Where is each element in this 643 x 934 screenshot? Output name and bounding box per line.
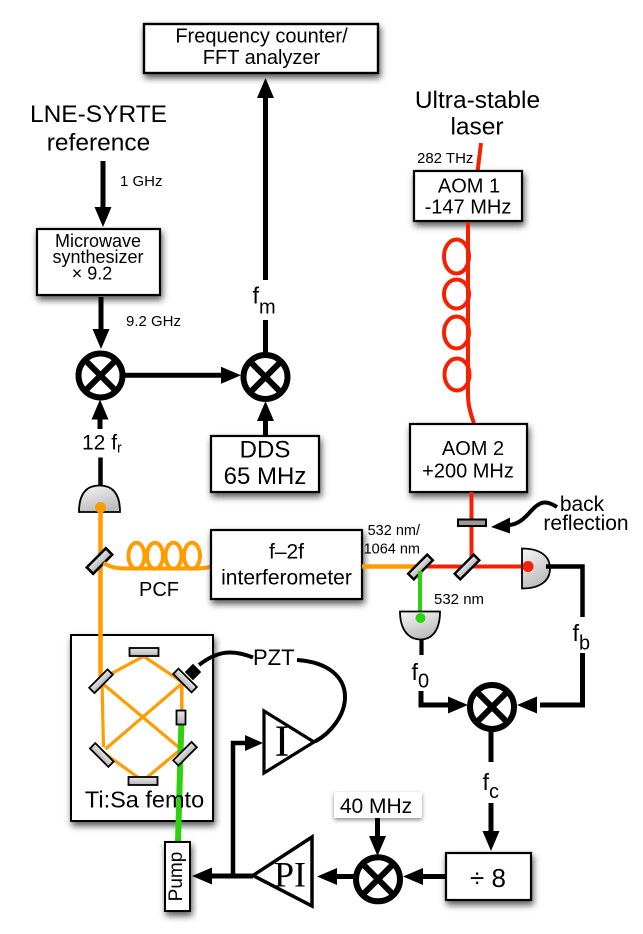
beam cavity Mbottom to M4 bbox=[145, 751, 179, 779]
mirror M3 (cavity bottom-left) bbox=[90, 743, 114, 767]
beam green 532nm down bbox=[418, 571, 422, 617]
beam cavity M1 to M3 bbox=[102, 683, 104, 748]
box U3 DDS 65 MHz bbox=[211, 436, 319, 492]
fiber PCF strand bbox=[104, 563, 213, 569]
photodiode PD1 (microwave detector) bbox=[79, 486, 120, 513]
wire arrow PI output to Pump bbox=[192, 868, 253, 885]
fiber PCF loop 1 bbox=[129, 543, 145, 569]
box U4 f-2f interferometer bbox=[211, 530, 362, 599]
crystal (doubling) bbox=[177, 711, 186, 725]
wire arrow mixer M1 to mixer M2 bbox=[125, 367, 241, 384]
svg-text:282 THz: 282 THz bbox=[417, 150, 473, 167]
beamsplitter BS2 green pickoff bbox=[408, 555, 433, 580]
beam cavity Mtop to M2 bbox=[145, 657, 183, 683]
fiber red loop 2 bbox=[444, 280, 469, 309]
wire branch up to amplifier I bbox=[233, 743, 247, 876]
svg-text:÷ 8: ÷ 8 bbox=[470, 863, 506, 893]
beam cavity M3 to Mbottom bbox=[104, 753, 142, 780]
svg-text:Frequency counter/: Frequency counter/ bbox=[175, 26, 348, 48]
svg-text:65 MHz: 65 MHz bbox=[224, 463, 307, 490]
svg-text:fm: fm bbox=[253, 283, 276, 319]
wire arrow divider to mixer M4 bbox=[403, 868, 446, 885]
svg-text:9.2 GHz: 9.2 GHz bbox=[126, 313, 181, 330]
mirror M4 (cavity bottom-right) bbox=[173, 742, 197, 766]
box laser cavity Ti:Sa femto bbox=[71, 635, 213, 821]
mixer M3 bbox=[470, 685, 514, 729]
wire curved arrow back reflection pointer bbox=[491, 502, 557, 533]
beam green crystal to Pump bbox=[178, 718, 182, 842]
wire arrow 12fr into mixer M1 bbox=[92, 400, 109, 430]
fiber PCF loop 4 bbox=[184, 543, 200, 569]
label 532 nm / 1064 nm bbox=[364, 523, 421, 558]
label Ultra-stable laser bbox=[415, 87, 540, 141]
beam red laser to AOM1 bbox=[478, 143, 482, 172]
svg-text:PI: PI bbox=[274, 855, 306, 895]
svg-text:12 fr: 12 fr bbox=[82, 432, 122, 457]
amplifier PI bbox=[253, 837, 312, 906]
wire PD2 stub bbox=[419, 640, 423, 655]
svg-text:PZT: PZT bbox=[253, 645, 295, 670]
svg-text:-147 MHz: -147 MHz bbox=[425, 197, 512, 219]
svg-text:1064 nm: 1064 nm bbox=[364, 542, 420, 558]
fiber red loop 1 bbox=[444, 240, 469, 274]
wire curve I output to PZT bbox=[297, 660, 345, 742]
fiber PCF loop 3 bbox=[166, 543, 182, 569]
wire arrow LNE-SYRTE to synthesizer bbox=[95, 161, 112, 227]
beam orange f-2f output bbox=[362, 564, 421, 569]
mirror Mbottom (cavity bottom) bbox=[129, 777, 158, 785]
box U1 Frequency counter / FFT analyzer bbox=[144, 24, 378, 73]
box 40 MHz label bbox=[334, 792, 422, 818]
beam red to detector PD3 bbox=[418, 565, 530, 569]
svg-text:40 MHz: 40 MHz bbox=[340, 795, 412, 818]
svg-text:f–2f: f–2f bbox=[269, 541, 304, 564]
mirror M1 (cavity top-left) bbox=[89, 669, 113, 693]
amplifier I bbox=[264, 711, 314, 773]
svg-text:532 nm: 532 nm bbox=[434, 591, 484, 608]
svg-text:reference: reference bbox=[47, 130, 151, 157]
node orange dot on PD1 bbox=[95, 502, 106, 513]
beam cavity M1 to M4 bbox=[100, 681, 180, 748]
beam cavity Mtop to M1 bbox=[99, 656, 144, 680]
box Pump bbox=[165, 842, 190, 911]
svg-text:interferometer: interferometer bbox=[221, 567, 352, 590]
svg-text:I: I bbox=[275, 717, 290, 766]
box U2 Microwave synthesizer x9.2 bbox=[37, 229, 160, 295]
svg-text:LNE-SYRTE: LNE-SYRTE bbox=[30, 101, 167, 128]
svg-text:532 nm/: 532 nm/ bbox=[368, 523, 421, 539]
label back reflection bbox=[543, 493, 628, 535]
mixer M2 bbox=[244, 355, 288, 399]
box U5 AOM 1 -147 MHz bbox=[414, 171, 522, 221]
beamsplitter BS3 combiner bbox=[455, 555, 480, 580]
photodiode PD3 (beat note detector) bbox=[522, 549, 550, 589]
fiber red loop 4 bbox=[445, 359, 470, 391]
svg-text:× 9.2: × 9.2 bbox=[72, 264, 113, 284]
svg-text:Ultra-stable: Ultra-stable bbox=[415, 87, 540, 114]
wire arrow f0 into mixer M3 bbox=[421, 691, 468, 714]
svg-text:f0: f0 bbox=[412, 659, 430, 693]
svg-text:AOM 2: AOM 2 bbox=[442, 438, 504, 460]
svg-text:fb: fb bbox=[573, 620, 591, 655]
box U6 AOM 2 +200 MHz bbox=[410, 424, 527, 492]
beam orange comb to femto M1 bbox=[98, 504, 103, 679]
wire arrow fc into divider bbox=[483, 803, 500, 851]
box U7 divider by 8 bbox=[446, 853, 531, 900]
beamsplitter BS1 near PCF bbox=[87, 548, 112, 573]
wire arrow mixer M4 to PI bbox=[317, 868, 354, 885]
wire arrow DDS to mixer M2 bbox=[257, 401, 274, 436]
wire arrowhead into I bbox=[245, 735, 263, 751]
label LNE-SYRTE reference bbox=[30, 101, 167, 157]
mirror M2 (cavity top-right with PZT) bbox=[173, 669, 197, 693]
wire PD3 to fb bbox=[546, 567, 583, 618]
back reflection plate bbox=[458, 520, 486, 527]
svg-text:Pump: Pump bbox=[166, 852, 187, 902]
svg-text:laser: laser bbox=[450, 114, 503, 141]
mixer M1 bbox=[79, 354, 123, 398]
beam red AOM2 down to beam line bbox=[470, 492, 474, 567]
fiber PCF loop 2 bbox=[147, 543, 163, 569]
photodiode PD2 (f0 detector, inverted dome) bbox=[400, 612, 440, 640]
wire arrow fb into mixer M3 bbox=[517, 653, 583, 714]
svg-text:FFT analyzer: FFT analyzer bbox=[203, 47, 321, 69]
svg-text:Ti:Sa femto: Ti:Sa femto bbox=[85, 787, 204, 813]
svg-text:PCF: PCF bbox=[139, 579, 179, 601]
svg-text:fc: fc bbox=[483, 769, 500, 803]
wire arrow synthesizer to mixer M1 bbox=[93, 297, 110, 349]
svg-text:DDS: DDS bbox=[240, 437, 291, 464]
mirror Mtop (cavity top) bbox=[130, 648, 159, 656]
mixer M4 bbox=[356, 857, 400, 901]
svg-text:1 GHz: 1 GHz bbox=[120, 173, 163, 190]
wire mixer M3 down, node fc bbox=[489, 731, 494, 762]
svg-text:reflection: reflection bbox=[543, 512, 628, 535]
wire curve PZT to actuator bbox=[199, 652, 253, 665]
wire arrow mixer M2 to frequency counter, node fm bbox=[257, 78, 274, 354]
wire photodiode PD1 stub bbox=[98, 458, 103, 488]
fiber red strand AOM1 to AOM2 bbox=[468, 222, 474, 423]
fiber red loop 3 bbox=[444, 317, 469, 349]
wire arrow 40MHz into mixer M4 bbox=[369, 818, 386, 856]
PZT actuator square bbox=[185, 664, 201, 680]
svg-text:AOM 1: AOM 1 bbox=[438, 176, 500, 198]
beam cavity M2 to crystal bbox=[180, 684, 184, 712]
beam cavity M2 to M3 bbox=[106, 684, 182, 749]
svg-text:+200 MHz: +200 MHz bbox=[422, 461, 514, 483]
